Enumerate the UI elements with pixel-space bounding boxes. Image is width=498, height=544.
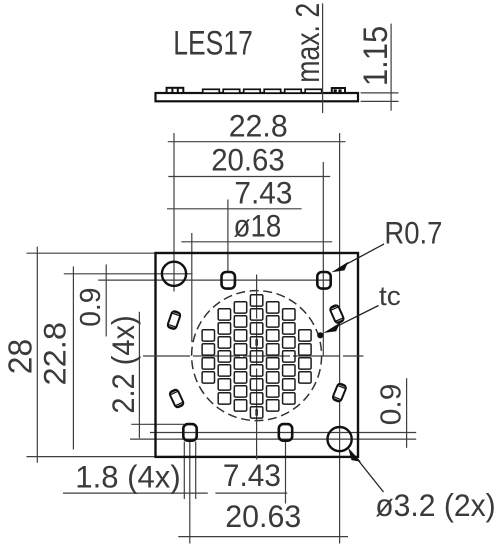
component chip lower-left	[169, 389, 185, 409]
dimension 22.8 left	[72, 267, 74, 450]
R0.7 leader arrow	[338, 244, 384, 269]
solder pad bottom-left	[183, 424, 196, 441]
dimension 20.63 top	[168, 176, 330, 178]
extension line hole TL vertical	[173, 133, 175, 292]
centerline horizontal	[143, 355, 363, 357]
svg-text:ø3.2 (2x): ø3.2 (2x)	[375, 487, 496, 523]
dimension max. 2	[322, 3, 324, 113]
dimension 0.9 right	[406, 378, 408, 448]
svg-text:LES17: LES17	[173, 24, 253, 62]
svg-text:7.43: 7.43	[223, 457, 281, 493]
svg-text:20.63: 20.63	[225, 498, 301, 534]
die orientation mark lower	[255, 409, 258, 416]
svg-text:20.63: 20.63	[211, 142, 285, 178]
component chip upper-right	[329, 304, 344, 324]
die orientation mark upper	[255, 339, 258, 346]
dimension 1.8 (4x) bottom	[63, 492, 208, 494]
dimension 0.9 left	[105, 264, 107, 336]
dimension 22.8 top	[168, 141, 346, 143]
svg-text:0.9: 0.9	[75, 288, 107, 327]
svg-text:1.8 (4x): 1.8 (4x)	[75, 459, 180, 495]
extension line pad TR vertical	[322, 162, 324, 356]
side view left connector	[167, 87, 184, 93]
dimension 28 left	[36, 247, 38, 463]
feature line pad-top-edge bottom	[131, 423, 184, 425]
solder pad top-left	[222, 272, 235, 289]
dimension 7.43 top	[167, 208, 302, 210]
solder pad bottom-center	[279, 424, 292, 441]
mounting hole bottom-right	[328, 427, 352, 451]
LES dashed circle	[192, 291, 322, 421]
feature line pad-center top	[98, 279, 331, 281]
svg-text:2.2 (4x): 2.2 (4x)	[105, 315, 141, 413]
side view board	[156, 93, 359, 101]
extension line pad TL vertical	[227, 200, 229, 273]
svg-text:max. 2: max. 2	[289, 3, 326, 83]
svg-text:R0.7: R0.7	[384, 214, 442, 250]
side view right connector	[332, 88, 345, 93]
tc leader arrow	[330, 306, 379, 330]
svg-text:tc: tc	[379, 281, 401, 311]
feature line pad-center bottom	[150, 432, 416, 434]
o3.2 leader arrow	[354, 455, 384, 492]
dimension 1.15	[390, 24, 392, 111]
component chip upper-left	[167, 310, 181, 329]
extension line LES left vertical	[191, 233, 193, 342]
extension line hole BR vertical long	[339, 133, 341, 544]
LED die grid	[202, 295, 311, 418]
feature line hole-center top	[64, 273, 193, 275]
side view die bumps	[203, 89, 322, 93]
mounting hole top-left	[162, 262, 186, 286]
dimension 2.2 (4x) left	[138, 312, 140, 439]
svg-text:1.15: 1.15	[357, 26, 395, 86]
tc measurement point	[317, 332, 323, 338]
centerline vertical	[256, 275, 258, 462]
svg-text:0.9: 0.9	[376, 384, 408, 426]
dimension 20.63 bottom	[178, 536, 348, 538]
svg-text:28: 28	[2, 339, 39, 374]
svg-text:22.8: 22.8	[37, 322, 73, 386]
component chip lower-right	[332, 383, 347, 403]
dimension 7.43 bottom	[215, 492, 287, 494]
package outline	[156, 253, 359, 457]
svg-text:ø18: ø18	[234, 208, 282, 244]
svg-text:22.8: 22.8	[229, 108, 288, 144]
solder pad top-right	[317, 272, 330, 289]
feature line hole-center bottom	[130, 438, 416, 440]
dimension o18	[181, 241, 332, 243]
svg-text:7.43: 7.43	[234, 174, 292, 210]
